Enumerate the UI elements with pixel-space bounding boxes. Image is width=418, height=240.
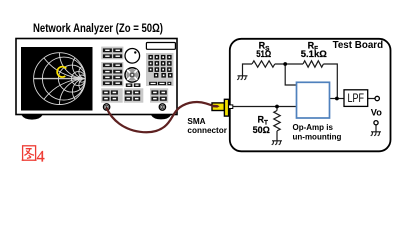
svg-text:5.1kΩ: 5.1kΩ — [301, 49, 327, 60]
reactance arc x=-0.5 — [34, 79, 138, 183]
resistor Rs zigzag — [252, 61, 275, 67]
ground G1 — [237, 76, 247, 80]
keypad grid — [148, 55, 172, 78]
svg-text:connector: connector — [187, 126, 227, 135]
resistor Rt zigzag — [274, 111, 280, 131]
node A junction dot — [283, 62, 287, 66]
LPF block — [344, 90, 368, 107]
wire SMA pin to op-amp input — [233, 106, 297, 108]
wire terminal 2 to ground — [375, 125, 377, 132]
svg-text:Network Analyzer (Zo = 50Ω): Network Analyzer (Zo = 50Ω) — [33, 23, 163, 35]
svg-text:Op-Amp is: Op-Amp is — [293, 123, 334, 132]
CRT screen — [21, 47, 93, 111]
reactance arc x=+2 — [72, 53, 98, 79]
analyzer right foot — [151, 115, 171, 119]
reactance arc x=-4 — [79, 79, 92, 92]
smith chart outer circle — [34, 53, 86, 105]
resistance circle R=3 — [71, 72, 85, 86]
SMA connector body — [212, 103, 224, 111]
buttons below d-pad — [126, 83, 141, 87]
wire feedback down to output node — [336, 96, 338, 99]
reactance arc x=+0.5 — [34, 0, 138, 79]
bottom button group 3 backing — [150, 88, 168, 102]
smith chart grid — [34, 0, 138, 182]
reactance arc x=+4 — [79, 66, 92, 79]
svg-text:un-mounting: un-mounting — [293, 132, 342, 141]
output node junction dot — [335, 97, 339, 101]
wire ground to Rs — [243, 64, 253, 76]
svg-text:4: 4 — [37, 149, 45, 166]
resistance circle R=6 — [78, 75, 85, 82]
svg-text:50Ω: 50Ω — [253, 125, 271, 136]
figure caption 图4 — [22, 146, 37, 160]
keypad backing — [146, 53, 174, 86]
network analyzer chassis — [16, 39, 177, 115]
wire Rs to node A — [275, 63, 303, 65]
ground G2 — [272, 141, 282, 145]
op-amp footprint U1 — [297, 82, 330, 118]
reactance arc x=+1 — [60, 27, 112, 79]
smith chart axis — [34, 78, 86, 80]
svg-text:Vo: Vo — [371, 108, 382, 118]
test board outline — [230, 39, 391, 152]
readout display window — [146, 43, 175, 50]
Vo output terminal — [375, 96, 379, 100]
svg-text:LPF: LPF — [348, 93, 365, 105]
navigation d-pad — [125, 68, 139, 82]
port connector right — [159, 104, 165, 110]
keypad bottom flat buttons — [149, 82, 171, 85]
resistance circle R=1 — [58, 65, 85, 92]
SMA center pin — [229, 105, 233, 109]
resistor Rf zigzag — [303, 61, 323, 67]
wire node A down to op-amp input — [285, 64, 296, 85]
wire Rt junction down — [276, 107, 278, 111]
SMA cable tip — [212, 105, 220, 108]
soft-key buttons left column — [103, 48, 122, 85]
coax cable — [107, 102, 213, 132]
Rt junction dot — [275, 105, 279, 109]
svg-text:SMA: SMA — [187, 117, 205, 126]
reactance arc x=-1 — [60, 79, 112, 131]
knob marker dot — [134, 51, 136, 53]
ground terminal — [374, 121, 378, 125]
reactance arc x=-2 — [72, 79, 98, 105]
yellow measurement trace — [57, 67, 66, 77]
wire LPF to Vo terminal — [367, 98, 375, 100]
bottom button group 1 backing — [101, 88, 123, 102]
panel backing block 2 — [101, 62, 123, 86]
wire Rf to feedback corner — [323, 64, 337, 96]
ground G3 — [371, 132, 381, 136]
bottom button groups — [103, 90, 167, 100]
svg-text:Test Board: Test Board — [333, 40, 384, 51]
port connector left — [103, 104, 109, 110]
bottom button group 2 backing — [124, 88, 144, 102]
wire Rt to ground — [276, 131, 278, 141]
SMA flange — [224, 99, 228, 116]
panel backing block 1 — [101, 47, 123, 60]
analyzer left foot — [22, 115, 43, 120]
svg-text:51Ω: 51Ω — [256, 49, 271, 60]
resistance circle R=0.5 — [42, 57, 85, 100]
rotary knob — [125, 49, 140, 64]
wire op-amp output to LPF — [330, 98, 345, 100]
